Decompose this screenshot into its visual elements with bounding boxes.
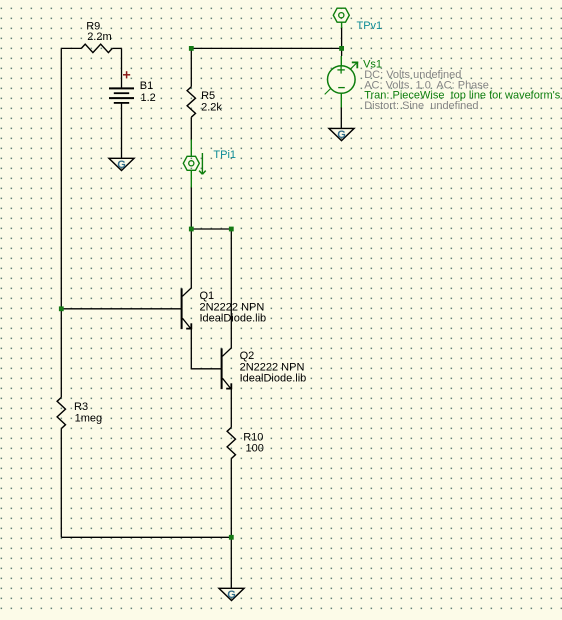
wire left rail lower: [60, 429, 62, 538]
svg-text:IdealDiode.lib: IdealDiode.lib: [240, 373, 307, 385]
svg-text:IdealDiode.lib: IdealDiode.lib: [200, 313, 267, 325]
svg-text:G: G: [117, 159, 126, 171]
svg-text:TPi1: TPi1: [213, 149, 236, 161]
node junction top right: [339, 46, 344, 51]
svg-text:R3: R3: [74, 401, 88, 413]
wire Q2 collector vertical: [230, 229, 232, 348]
resistor R3: [57, 397, 65, 428]
node junction collector left: [189, 227, 194, 232]
node junction base rail: [59, 306, 64, 311]
svg-text:2N2222 NPN: 2N2222 NPN: [240, 361, 305, 373]
wire TPv1 stub: [341, 27, 343, 48]
svg-text:Distort: Sine undefined: Distort: Sine undefined: [364, 100, 478, 112]
test point TPv1: [341, 22, 343, 28]
battery B1: [109, 87, 134, 89]
svg-text:2.2k: 2.2k: [201, 101, 222, 113]
svg-text:Q2: Q2: [240, 350, 255, 362]
svg-text:2N2222 NPN: 2N2222 NPN: [200, 301, 265, 313]
wire R5 top lead: [190, 48, 192, 86]
node junction top left: [189, 46, 194, 51]
ground bottom: [219, 588, 244, 600]
wire Q2 emitter to R10: [230, 389, 232, 428]
resistor R9: [61, 47, 81, 49]
svg-text:1.2: 1.2: [141, 92, 156, 104]
wire Q1 emitter to Q2 base: [191, 329, 221, 369]
svg-text:B1: B1: [140, 80, 153, 92]
svg-text:2.2m: 2.2m: [87, 31, 111, 43]
ground under Vs1: [329, 128, 354, 140]
svg-text:1meg: 1meg: [75, 412, 103, 424]
resistor R10: [227, 427, 235, 458]
wire R10 to bottom node: [230, 459, 232, 538]
wire battery top lead: [121, 48, 123, 88]
svg-text:TPv1: TPv1: [357, 20, 383, 32]
wire Q1 base: [61, 308, 181, 310]
wire R5 to TPi1: [190, 117, 192, 140]
test point TPi1: [190, 140, 192, 157]
svg-text:R5: R5: [201, 90, 215, 102]
svg-text:Q1: Q1: [200, 290, 215, 302]
voltage source Vs1: [325, 63, 357, 95]
svg-text:100: 100: [246, 442, 264, 454]
TPi1 current arrow: [201, 153, 203, 174]
wire top horizontal net: [191, 47, 341, 49]
svg-text:G: G: [337, 129, 346, 141]
wire TPi1 to node: [190, 187, 192, 230]
wire Vs1 top lead: [341, 48, 343, 56]
resistor R5: [187, 87, 195, 117]
ground under B1: [109, 158, 134, 170]
transistor Q1: [181, 288, 183, 329]
transistor Q2: [221, 348, 223, 389]
node junction collector right: [229, 227, 234, 232]
svg-text:G: G: [227, 589, 236, 601]
wire Q1 collector vertical: [190, 229, 192, 288]
wire left rail upper: [60, 48, 62, 397]
wire Vs1 bottom lead: [340, 107, 342, 128]
battery B1 plus mark: [123, 74, 130, 76]
wire bottom node to ground: [230, 537, 232, 588]
node junction bottom: [229, 535, 234, 540]
wire collector node horizontal: [191, 228, 231, 230]
wire bottom horizontal: [61, 536, 231, 538]
wire battery bottom lead: [121, 103, 123, 159]
